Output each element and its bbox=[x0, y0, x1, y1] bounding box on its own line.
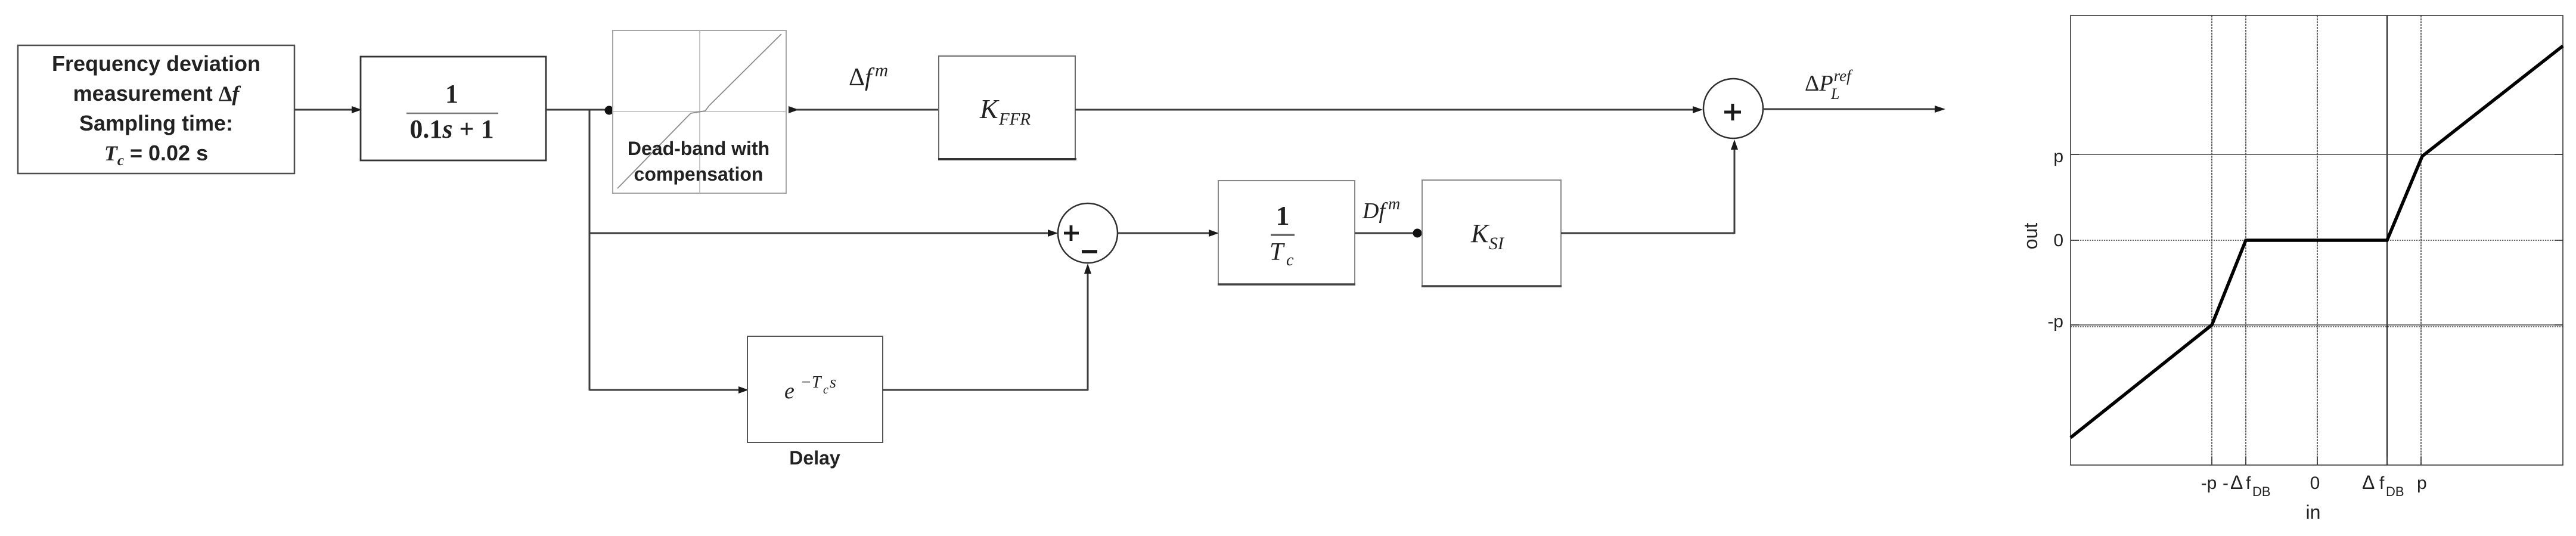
delay block e^-Tcs bbox=[747, 336, 883, 442]
svg-text:K: K bbox=[1470, 219, 1490, 248]
svg-text:DB: DB bbox=[2252, 484, 2271, 499]
gain block K_SI bbox=[1422, 180, 1562, 286]
svg-text:c: c bbox=[823, 383, 828, 396]
gridline p vertical bbox=[2420, 16, 2422, 465]
svg-text:Δ: Δ bbox=[2362, 472, 2375, 493]
gridline -p horizontal dotted bbox=[2071, 326, 2563, 327]
middle rail wire to +/- sum bbox=[589, 230, 1058, 237]
svg-text:Sampling time:: Sampling time: bbox=[79, 111, 233, 135]
svg-text:p: p bbox=[2417, 473, 2427, 493]
junction dot at K_SI input bbox=[1413, 229, 1422, 238]
svg-text:p: p bbox=[2053, 147, 2063, 166]
svg-text:measurement Δf: measurement Δf bbox=[73, 81, 241, 106]
wire dead-band to K_FFR bbox=[796, 109, 939, 111]
svg-text:-p: -p bbox=[2047, 312, 2063, 331]
dead-band with compensation block bbox=[613, 30, 786, 193]
line p horizontal solid bbox=[2071, 154, 2563, 155]
junction dot at dead-band input bbox=[605, 106, 614, 115]
svg-text:-: - bbox=[2223, 473, 2229, 493]
svg-text:Δ: Δ bbox=[2230, 472, 2243, 493]
svg-text:DB: DB bbox=[2386, 484, 2404, 499]
axis ticks left bbox=[2071, 154, 2079, 155]
low-pass filter block 1/(0.1s+1) bbox=[361, 57, 546, 160]
svg-text:f: f bbox=[2379, 473, 2385, 493]
input description box bbox=[18, 45, 294, 173]
svg-text:K: K bbox=[979, 94, 1000, 124]
axis ticks right bbox=[2555, 154, 2563, 155]
svg-text:T: T bbox=[1270, 238, 1285, 266]
summing junction (+) output bbox=[1703, 79, 1763, 138]
axis ticks bottom bbox=[2211, 457, 2212, 465]
svg-text:in: in bbox=[2306, 501, 2321, 523]
chart plot box bbox=[2071, 16, 2563, 465]
integrator block 1/Tc bbox=[1218, 181, 1355, 284]
summing junction (+/-) bbox=[1058, 203, 1118, 263]
wire K_FFR to sum bbox=[1075, 106, 1703, 113]
svg-text:f: f bbox=[2246, 473, 2251, 493]
output wire and label bbox=[1763, 106, 1945, 113]
svg-text:Frequency deviation: Frequency deviation bbox=[52, 51, 260, 76]
gridline 0 horizontal bbox=[2071, 240, 2563, 241]
svg-text:1: 1 bbox=[1276, 200, 1290, 231]
svg-text:c: c bbox=[1286, 251, 1294, 269]
svg-text:e: e bbox=[784, 379, 794, 404]
gridline 0 vertical bbox=[2317, 16, 2318, 465]
wire delay to +/- sum bottom bbox=[883, 264, 1091, 391]
wire filter to dead-band bbox=[546, 109, 613, 111]
delay branch wire bbox=[589, 386, 749, 394]
svg-text:out: out bbox=[2020, 223, 2041, 250]
svg-text:Delay: Delay bbox=[789, 447, 840, 469]
svg-text:L: L bbox=[1830, 85, 1839, 103]
svg-text:FFR: FFR bbox=[998, 110, 1031, 129]
svg-text:SI: SI bbox=[1489, 234, 1505, 253]
svg-text:0.1s + 1: 0.1s + 1 bbox=[409, 114, 494, 144]
gridline -dfDB vertical bbox=[2245, 16, 2246, 465]
svg-text:1: 1 bbox=[445, 79, 458, 109]
wire K_SI to + sum bbox=[1561, 140, 1738, 234]
dead-band transfer curve bbox=[2071, 46, 2563, 438]
svg-text:compensation: compensation bbox=[634, 163, 764, 185]
gain block K_FFR bbox=[938, 56, 1076, 159]
wire input box to filter block bbox=[294, 106, 362, 113]
svg-text:−T: −T bbox=[800, 373, 823, 392]
svg-text:s: s bbox=[830, 373, 836, 392]
svg-text:-p: -p bbox=[2201, 473, 2217, 493]
wire 1/Tc to K_SI bbox=[1355, 233, 1422, 234]
arrow out of dead-band bbox=[789, 106, 799, 113]
svg-text:0: 0 bbox=[2053, 231, 2063, 250]
line dfDB vertical solid bbox=[2386, 16, 2388, 465]
wire +/- sum to 1/Tc bbox=[1118, 230, 1219, 237]
svg-text:0: 0 bbox=[2310, 473, 2320, 493]
line -p horizontal solid bbox=[2071, 324, 2563, 326]
svg-text:Dead-band with: Dead-band with bbox=[628, 138, 769, 159]
branch vertical wire bbox=[589, 110, 591, 391]
gridline -p vertical bbox=[2211, 16, 2212, 465]
